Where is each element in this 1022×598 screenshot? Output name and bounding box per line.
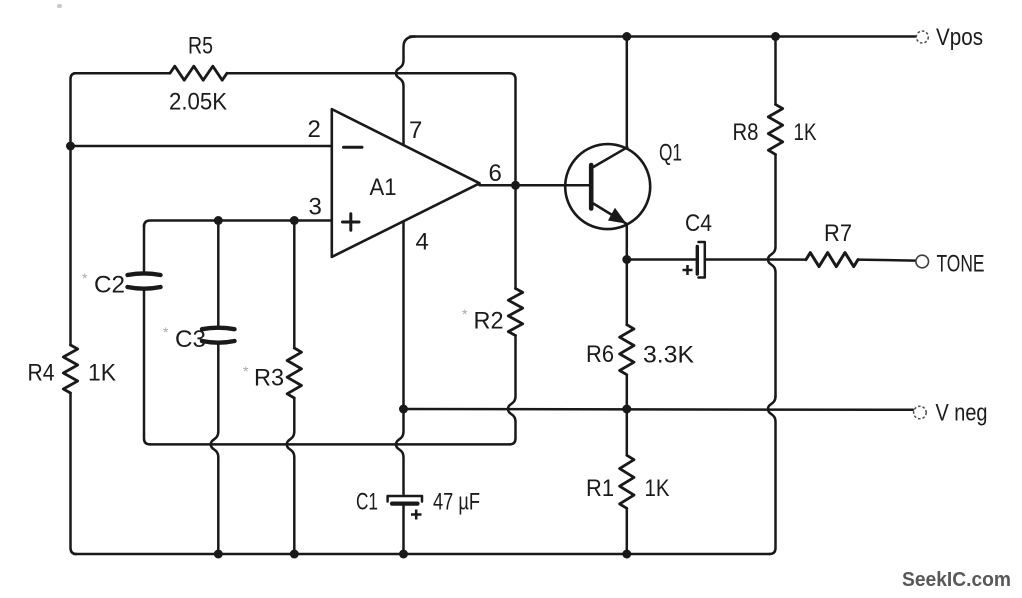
wire non-inverting input (pin 3) bbox=[144, 221, 332, 227]
resistor R3 lower lead with hop bbox=[287, 398, 295, 554]
wire C2-R2 bottom net bbox=[150, 443, 510, 446]
svg-text:*: * bbox=[243, 363, 249, 379]
op-amp plus mark bbox=[343, 214, 360, 230]
wire inverting input (pin 2) bbox=[71, 145, 332, 148]
svg-text:1K: 1K bbox=[645, 475, 670, 502]
wire R6 to V neg node bbox=[626, 375, 629, 456]
transistor Q1 collector stroke bbox=[593, 147, 628, 167]
wire top rail bbox=[410, 35, 916, 38]
capacitor C2 bbox=[128, 273, 161, 288]
svg-text:R5: R5 bbox=[188, 33, 213, 60]
op-amp minus mark bbox=[344, 146, 363, 149]
wire V neg rail bbox=[404, 408, 914, 411]
terminal TONE bbox=[916, 255, 929, 268]
svg-text:SeekIC.com: SeekIC.com bbox=[902, 568, 1011, 591]
svg-text:R2: R2 bbox=[474, 308, 504, 335]
svg-text:A1: A1 bbox=[370, 174, 397, 201]
node at inverting input column bbox=[66, 142, 75, 151]
svg-text:R4: R4 bbox=[28, 360, 55, 387]
svg-text:3: 3 bbox=[309, 194, 322, 221]
wire Q1 emitter down bbox=[626, 225, 629, 260]
capacitor C3 lower lead with hop over bottom net bbox=[211, 344, 219, 555]
transistor Q1 emitter arrowhead bbox=[610, 210, 624, 222]
capacitor C2 branch upper lead bbox=[143, 225, 146, 272]
node pin4 V neg bbox=[399, 405, 408, 414]
terminal V neg bbox=[914, 406, 927, 419]
node C3 top bbox=[214, 216, 223, 225]
svg-text:7: 7 bbox=[409, 117, 422, 144]
resistor R2 bbox=[508, 289, 522, 336]
svg-text:2.05K: 2.05K bbox=[169, 89, 227, 116]
svg-text:47 µF: 47 µF bbox=[433, 489, 480, 516]
resistor R4 bbox=[63, 345, 77, 393]
op-amp A1 bbox=[332, 109, 480, 257]
resistor R8 bbox=[768, 104, 782, 154]
wire op-amp output to Q1 base bbox=[480, 184, 591, 187]
capacitor C2 lower lead bbox=[144, 290, 150, 445]
svg-text:3.3K: 3.3K bbox=[643, 342, 694, 369]
node op-amp output pin 6 bbox=[511, 181, 520, 190]
svg-text:2: 2 bbox=[308, 116, 321, 143]
resistor R3 bbox=[287, 348, 301, 398]
wire bottom rail bbox=[74, 553, 770, 556]
capacitor C1 lower lead bbox=[402, 506, 405, 554]
node R3 bottom rail bbox=[290, 550, 299, 559]
wire R1 to bottom rail bbox=[626, 508, 629, 554]
svg-text:R3: R3 bbox=[254, 365, 284, 392]
plus mark of C1 bbox=[411, 510, 422, 520]
resistor R1 bbox=[620, 455, 634, 508]
svg-text:R8: R8 bbox=[733, 119, 759, 146]
transistor Q1 circle bbox=[565, 144, 650, 229]
svg-text:*: * bbox=[462, 306, 468, 322]
wire R5 to output column bbox=[227, 73, 516, 288]
node R3 top bbox=[290, 216, 299, 225]
svg-text:*: * bbox=[163, 324, 169, 340]
wire pin 4 continues with hop over bottom net bbox=[396, 409, 404, 494]
capacitor C4 bar plate bbox=[696, 247, 699, 275]
plus mark of C4 bbox=[683, 265, 693, 275]
wire R7 to TONE terminal bbox=[858, 260, 915, 261]
capacitor C1 bar plate bbox=[392, 502, 418, 506]
wire emitter node to C4 bbox=[627, 258, 696, 261]
wire left rail top corner and upper segment bbox=[71, 73, 77, 345]
node C3 bottom rail bbox=[214, 550, 223, 559]
svg-text:V neg: V neg bbox=[936, 400, 988, 427]
svg-text:C1: C1 bbox=[356, 489, 378, 516]
svg-text:*: * bbox=[82, 270, 88, 286]
resistor R5 bbox=[170, 66, 227, 80]
wire left rail lower segment bbox=[71, 393, 77, 554]
svg-text:R1: R1 bbox=[586, 475, 614, 502]
wire R5 feedback top bbox=[74, 72, 170, 75]
scan smudge bbox=[57, 4, 62, 8]
node R1 bottom rail bbox=[622, 550, 631, 559]
transistor Q1 base bar bbox=[589, 165, 594, 209]
svg-text:4: 4 bbox=[416, 229, 429, 256]
svg-text:1K: 1K bbox=[88, 360, 116, 387]
wire R2 lower lead with hop over V neg wire bbox=[508, 336, 516, 445]
capacitor C1 bracket plate bbox=[388, 496, 422, 502]
resistor R7 bbox=[806, 253, 858, 267]
svg-text:6: 6 bbox=[489, 160, 502, 187]
svg-text:R6: R6 bbox=[586, 341, 614, 368]
node emitter C4 bbox=[622, 255, 631, 264]
node R6 R1 V neg bbox=[622, 405, 631, 414]
capacitor C3 bbox=[202, 328, 235, 343]
wire right column through V neg junction to bottom rail bbox=[768, 396, 776, 554]
node collector top rail bbox=[622, 32, 631, 41]
svg-text:Vpos: Vpos bbox=[936, 24, 983, 51]
wire pin 7 supply with hop over R5 wire bbox=[396, 37, 415, 145]
capacitor C3 upper lead bbox=[217, 221, 220, 328]
svg-text:1K: 1K bbox=[794, 119, 817, 146]
terminal Vpos bbox=[916, 31, 928, 43]
svg-text:R7: R7 bbox=[824, 220, 852, 247]
wire Q1 collector to top rail bbox=[626, 37, 629, 149]
wire R6 emitter column bbox=[626, 260, 629, 325]
capacitor C4 bracket plate bbox=[699, 242, 705, 278]
node C1 bottom rail bbox=[399, 550, 408, 559]
transistor Q1 emitter stroke bbox=[593, 203, 627, 224]
wire R8 column to TONE junction bbox=[768, 154, 776, 396]
wire R8 upper lead bbox=[774, 37, 777, 105]
svg-text:TONE: TONE bbox=[937, 251, 985, 278]
svg-text:C2: C2 bbox=[94, 272, 125, 299]
wire pin 4 down to V neg node bbox=[402, 222, 405, 409]
wire C4 to junction and R7 bbox=[705, 258, 806, 261]
svg-text:C3: C3 bbox=[175, 326, 206, 353]
svg-text:Q1: Q1 bbox=[659, 140, 682, 167]
resistor R6 bbox=[620, 325, 634, 375]
svg-text:C4: C4 bbox=[685, 210, 712, 237]
node R8 top rail bbox=[771, 32, 780, 41]
resistor R3 upper lead bbox=[293, 221, 296, 349]
